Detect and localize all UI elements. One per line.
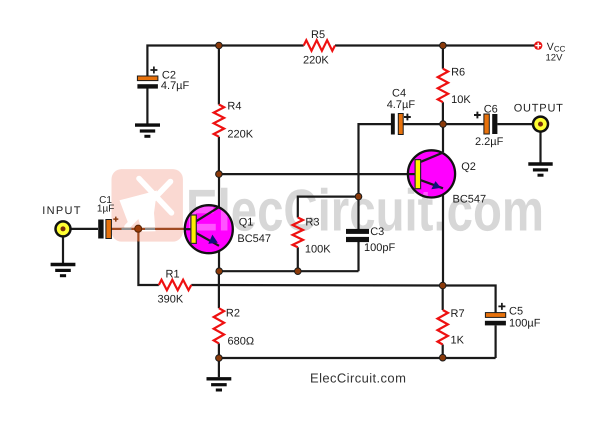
wire R4 top <box>218 46 220 105</box>
watermark logo box <box>112 169 183 242</box>
svg-text:4.7µF: 4.7µF <box>161 80 190 92</box>
svg-text:R5: R5 <box>311 29 325 41</box>
gray wire over white glyph right <box>145 228 155 230</box>
wire C4 right to node <box>403 123 443 125</box>
wire C3 top <box>357 197 359 229</box>
resistor R4 220K <box>214 105 224 137</box>
wire node to C6 <box>443 123 484 125</box>
wire Q2 collector vertical <box>442 124 444 152</box>
transistor Q1 BC547 <box>185 177 544 253</box>
wire C6 to output jack <box>498 123 533 125</box>
svg-text:220K: 220K <box>227 129 253 141</box>
ground under output jack <box>528 164 552 175</box>
wire Q1 collector vertical <box>218 174 220 207</box>
svg-text:Q1: Q1 <box>239 217 254 229</box>
svg-text:OUTPUT: OUTPUT <box>514 102 564 114</box>
gray wire over white glyph left <box>122 228 132 230</box>
node R4-Q1 collector <box>216 171 223 178</box>
wire R1 right to Q2 emitter node <box>191 284 442 287</box>
wire input jack to C1 <box>63 228 98 230</box>
ground under input jack <box>51 265 76 276</box>
wire R6 top <box>442 46 444 69</box>
capacitor C6 minus plate <box>492 114 497 134</box>
ground under C2 <box>135 125 160 136</box>
wire top rail left segment <box>147 46 303 77</box>
svg-text:R2: R2 <box>226 308 240 320</box>
capacitor C6 plus plate <box>484 114 489 134</box>
wire R6 bottom <box>442 102 444 124</box>
svg-text:12V: 12V <box>546 53 564 64</box>
node A C1-Q1 base <box>135 225 142 232</box>
svg-text:C4: C4 <box>392 88 406 100</box>
wire R3 bottom <box>297 247 299 271</box>
node Q2 emitter-R7-C5 <box>439 282 446 289</box>
wire C2 bottom <box>146 88 148 124</box>
svg-text:1µF: 1µF <box>97 204 114 215</box>
svg-text:10K: 10K <box>451 94 471 106</box>
wire R3 top <box>298 197 359 218</box>
ground under R2 <box>207 379 232 390</box>
wire R2 top <box>218 271 220 308</box>
wire C3 bottom <box>357 242 359 271</box>
svg-text:C6: C6 <box>484 104 498 116</box>
svg-text:680Ω: 680Ω <box>228 336 255 348</box>
svg-text:220K: 220K <box>303 55 329 67</box>
wire C5 bottom <box>495 326 497 359</box>
resistor R2 680 <box>214 308 224 343</box>
capacitor C5 plus sign <box>498 303 505 310</box>
svg-text:4.7µF: 4.7µF <box>387 99 416 111</box>
resistor R3 100K <box>293 218 303 248</box>
resistor R5 220K <box>304 40 335 51</box>
wire R4 bottom <box>218 137 220 174</box>
transistor Q2 BC547 <box>186 150 544 243</box>
node Q1 emitter <box>216 268 223 275</box>
resistor R6 10K <box>438 69 448 103</box>
capacitor C3 bottom plate <box>346 237 369 242</box>
wire output jack ground drop <box>539 132 541 163</box>
wire R2 ground drop <box>218 358 220 377</box>
capacitor C4 plus plate <box>398 114 403 135</box>
wire Q2 emitter vertical <box>442 188 444 285</box>
wire node A down to R1 corner <box>138 241 158 286</box>
capacitor C5 minus plate <box>485 321 506 326</box>
resistor R7 1K <box>438 310 448 345</box>
svg-text:Q2: Q2 <box>461 161 476 173</box>
node R3 bottom <box>295 268 302 275</box>
wire base link Q1 collector to Q2 base <box>219 173 416 175</box>
output jack <box>533 117 548 132</box>
svg-text:BC547: BC547 <box>453 194 487 206</box>
node R6-C4-C6-Q2 collector <box>440 121 447 128</box>
wire top rail right segment <box>335 44 535 46</box>
capacitor C2 plus sign <box>150 67 157 74</box>
resistor R1 390K <box>159 280 192 290</box>
capacitor C2 minus plate <box>137 84 158 88</box>
capacitor C4 minus plate <box>391 114 395 135</box>
watermark logo X glyph <box>127 179 172 227</box>
capacitor C3 top plate <box>346 229 369 234</box>
svg-text:2.2µF: 2.2µF <box>475 136 504 148</box>
wire bottom rail <box>219 357 496 359</box>
svg-text:ElecCircuit.com: ElecCircuit.com <box>310 370 406 385</box>
wire C4 left branch <box>359 124 392 197</box>
svg-text:R6: R6 <box>451 67 465 79</box>
svg-text:R1: R1 <box>166 269 180 281</box>
wire Q1 emitter vertical <box>218 246 220 271</box>
watermark logo arrow glyph <box>120 191 158 232</box>
node rail-R4 <box>216 42 223 49</box>
capacitor C1 minus plate <box>98 220 103 239</box>
wire C5 top branch <box>443 286 496 313</box>
capacitor C2 4.7uF plus plate <box>137 76 158 81</box>
capacitor C4 plus sign <box>404 114 411 121</box>
svg-text:BC547: BC547 <box>237 233 271 245</box>
node rail-R6 <box>440 42 447 49</box>
wire R2 bottom <box>218 343 220 358</box>
svg-text:100K: 100K <box>305 244 331 256</box>
svg-text:INPUT: INPUT <box>42 205 82 217</box>
sienna wire C1 to Q1 base inside logo <box>111 228 191 230</box>
VCC terminal <box>534 41 542 49</box>
node R7 bottom <box>439 354 446 361</box>
svg-text:1K: 1K <box>451 335 465 347</box>
svg-text:R3: R3 <box>305 217 319 229</box>
wire input jack ground drop <box>62 236 64 263</box>
wire emitter row Q1 to C3 <box>219 270 358 272</box>
capacitor C6 plus sign <box>474 112 481 119</box>
wire R7 top <box>442 286 444 311</box>
svg-text:100µF: 100µF <box>509 317 541 329</box>
input jack <box>56 221 71 236</box>
node C4-R3-C3 <box>355 193 362 200</box>
svg-text:C5: C5 <box>509 306 523 318</box>
sienna wire node A drop <box>137 229 139 242</box>
capacitor C1 plus sign <box>113 217 118 222</box>
svg-text:R7: R7 <box>451 308 465 320</box>
svg-text:100pF: 100pF <box>364 242 395 254</box>
capacitor C5 plus plate <box>485 313 505 318</box>
svg-text:R4: R4 <box>227 101 241 113</box>
svg-text:C3: C3 <box>370 226 384 238</box>
node R2 bottom <box>216 355 223 362</box>
wire R7 bottom <box>442 345 444 358</box>
svg-text:390K: 390K <box>158 294 184 306</box>
capacitor C1 plus plate <box>106 220 112 239</box>
